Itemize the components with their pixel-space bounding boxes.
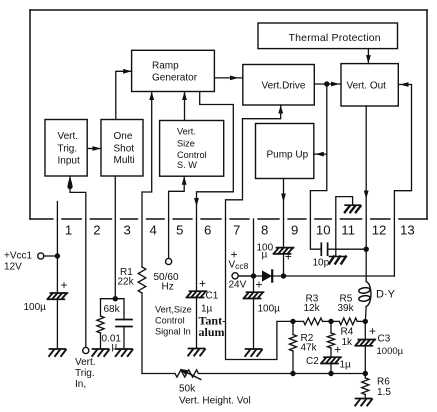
svg-text:11: 11 xyxy=(341,223,355,238)
svg-text:Trig.: Trig. xyxy=(75,368,95,379)
svg-text:Vert.: Vert. xyxy=(75,357,96,368)
svg-text:C2: C2 xyxy=(306,356,319,367)
svg-text:R6: R6 xyxy=(377,377,390,388)
svg-text:Multi: Multi xyxy=(114,155,135,166)
svg-text:C1: C1 xyxy=(206,291,219,302)
svg-text:9: 9 xyxy=(291,223,298,238)
svg-text:12: 12 xyxy=(372,223,387,238)
svg-text:1µ: 1µ xyxy=(340,360,352,371)
svg-text:13: 13 xyxy=(400,223,415,238)
svg-text:+: + xyxy=(369,324,376,338)
svg-text:1000µ: 1000µ xyxy=(377,346,404,357)
svg-text:10p: 10p xyxy=(313,258,330,269)
svg-text:+: + xyxy=(256,278,263,292)
svg-text:Pump Up: Pump Up xyxy=(267,150,309,161)
svg-text:1k: 1k xyxy=(342,337,354,348)
svg-text:1: 1 xyxy=(65,223,72,238)
svg-text:6: 6 xyxy=(204,223,211,238)
svg-text:12V: 12V xyxy=(4,262,22,273)
svg-text:3: 3 xyxy=(124,223,131,238)
svg-text:5: 5 xyxy=(176,223,183,238)
svg-text:Vert. Out: Vert. Out xyxy=(347,81,387,92)
svg-text:50k: 50k xyxy=(179,384,196,395)
svg-text:D·Y: D·Y xyxy=(376,289,396,301)
svg-text:alum: alum xyxy=(199,325,225,339)
svg-text:12k: 12k xyxy=(304,303,321,314)
svg-text:One: One xyxy=(114,131,133,142)
svg-text:Vert,Size: Vert,Size xyxy=(155,304,192,314)
svg-text:Vert.: Vert. xyxy=(177,126,196,136)
svg-text:47k: 47k xyxy=(301,343,318,354)
svg-text:+: + xyxy=(334,343,341,357)
svg-text:39k: 39k xyxy=(338,303,355,314)
svg-text:Signal In: Signal In xyxy=(155,326,191,336)
svg-text:Size: Size xyxy=(177,138,195,148)
svg-text:µ: µ xyxy=(262,250,268,261)
svg-text:24V: 24V xyxy=(229,280,247,291)
svg-text:In,: In, xyxy=(75,379,86,390)
svg-text:Generator: Generator xyxy=(152,73,198,84)
svg-text:Vert.: Vert. xyxy=(58,131,79,142)
svg-text:100µ: 100µ xyxy=(258,304,281,315)
svg-text:Hz: Hz xyxy=(162,282,174,293)
svg-text:+Vcc1: +Vcc1 xyxy=(4,251,33,262)
svg-text:Control: Control xyxy=(177,150,207,160)
svg-text:7: 7 xyxy=(233,223,240,238)
svg-text:C3: C3 xyxy=(378,334,391,345)
svg-text:100µ: 100µ xyxy=(24,302,47,313)
svg-text:Ramp: Ramp xyxy=(152,61,179,72)
svg-text:68k: 68k xyxy=(104,304,121,315)
svg-text:Input: Input xyxy=(58,155,80,166)
svg-text:2: 2 xyxy=(93,223,100,238)
svg-text:Thermal Protection: Thermal Protection xyxy=(289,32,381,44)
svg-text:+: + xyxy=(285,250,292,264)
svg-text:R4: R4 xyxy=(341,327,354,338)
svg-text:Vcc8: Vcc8 xyxy=(229,260,249,272)
svg-text:Vert. Height. Vol: Vert. Height. Vol xyxy=(179,396,251,407)
svg-text:22k: 22k xyxy=(118,277,135,288)
svg-text:10: 10 xyxy=(316,223,331,238)
svg-text:Shot: Shot xyxy=(114,143,135,154)
svg-text:+: + xyxy=(199,277,206,291)
svg-text:1.5: 1.5 xyxy=(377,387,391,398)
svg-text:S. W: S. W xyxy=(177,160,197,170)
svg-text:+: + xyxy=(61,278,68,292)
svg-text:Control: Control xyxy=(155,315,185,325)
svg-text:Vert.Drive: Vert.Drive xyxy=(262,81,306,92)
svg-text:Trig.: Trig. xyxy=(58,143,78,154)
svg-text:4: 4 xyxy=(150,223,157,238)
svg-text:8: 8 xyxy=(261,223,268,238)
svg-text:µ: µ xyxy=(112,342,118,353)
